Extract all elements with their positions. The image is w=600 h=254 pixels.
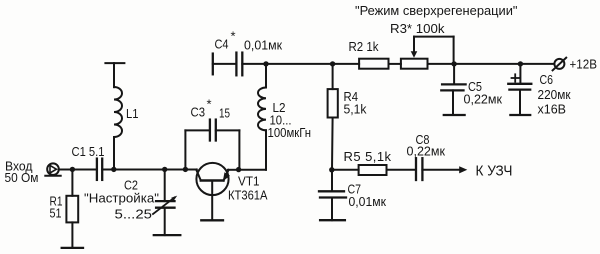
svg-text:100мкГн: 100мкГн bbox=[268, 125, 312, 140]
svg-text:R3* 100k: R3* 100k bbox=[390, 21, 445, 36]
svg-text:х16В: х16В bbox=[538, 102, 567, 117]
svg-text:"Режим сверхрегенерации": "Режим сверхрегенерации" bbox=[355, 3, 518, 18]
svg-text:VT1: VT1 bbox=[238, 174, 260, 189]
svg-text:5,1k: 5,1k bbox=[344, 101, 367, 116]
svg-text:C4: C4 bbox=[215, 37, 229, 52]
label C3 * 15 bbox=[191, 97, 231, 121]
capacitor C8 bbox=[416, 158, 422, 180]
label C4 * 0,01мк bbox=[215, 29, 283, 53]
svg-text:"Настройка": "Настройка" bbox=[84, 190, 159, 205]
inductor L1 bbox=[105, 63, 124, 169]
node input/R1 junction bbox=[70, 167, 75, 172]
wire R3 to +12V terminal bbox=[428, 63, 554, 65]
node R5/C7 junction bbox=[329, 167, 334, 172]
svg-text:*: * bbox=[207, 97, 212, 112]
svg-text:R2 1k: R2 1k bbox=[349, 39, 379, 54]
svg-text:C3: C3 bbox=[191, 105, 206, 120]
wire input to C1 bbox=[59, 169, 97, 171]
inductor L2 bbox=[258, 64, 266, 170]
wire top rail C4 node to R2 bbox=[266, 63, 359, 65]
wire R4 node to R5 bbox=[332, 169, 359, 171]
wire L1 node to C2 node bbox=[114, 169, 165, 171]
svg-text:КТ361А: КТ361А bbox=[228, 187, 268, 202]
node R4 tap on top rail bbox=[330, 61, 335, 66]
node C6 junction bbox=[518, 61, 523, 66]
svg-text:К УЗЧ: К УЗЧ bbox=[476, 162, 513, 179]
resistor R4 bbox=[328, 64, 338, 170]
label R4 5,1k bbox=[344, 89, 367, 117]
wire transistor to emitter node bbox=[228, 169, 239, 171]
wire C1 to L1 node bbox=[102, 169, 114, 171]
variable capacitor C2 bbox=[153, 170, 177, 236]
+12V terminal bbox=[553, 58, 567, 71]
svg-text:*: * bbox=[231, 29, 236, 44]
svg-text:R5 5,1k: R5 5,1k bbox=[344, 149, 392, 164]
svg-text:51: 51 bbox=[50, 205, 62, 220]
label C8 0,22мк bbox=[407, 132, 446, 159]
input connector XW1 bbox=[45, 163, 60, 175]
svg-text:C6: C6 bbox=[540, 72, 554, 87]
svg-text:0,01мк: 0,01мк bbox=[349, 194, 387, 209]
svg-text:0,22мк: 0,22мк bbox=[464, 91, 503, 106]
svg-text:+12В: +12В bbox=[570, 56, 598, 71]
wire emitter node to L2 bbox=[239, 169, 266, 171]
wire R5 to C8 bbox=[387, 169, 417, 171]
ground (C6) bbox=[510, 114, 530, 116]
node base/C3 junction bbox=[183, 167, 188, 172]
ground (VT1 base) bbox=[201, 219, 223, 221]
svg-text:15: 15 bbox=[219, 105, 230, 120]
label C5 0,22мк bbox=[464, 79, 503, 107]
label R1 51 bbox=[50, 194, 63, 221]
ground (C5) bbox=[444, 114, 465, 116]
wire C2 node to base node bbox=[165, 169, 186, 171]
label VT1 КТ361А bbox=[228, 174, 268, 203]
svg-text:0,22мк: 0,22мк bbox=[407, 144, 446, 159]
ground (C7) bbox=[320, 219, 345, 221]
svg-text:L1: L1 bbox=[126, 106, 139, 121]
ground (R1) bbox=[62, 247, 83, 249]
svg-text:C1 5.1: C1 5.1 bbox=[72, 144, 105, 159]
node C1/L1 junction bbox=[111, 167, 116, 172]
label Вход 50 Ом bbox=[5, 158, 39, 185]
wire C8 to output arrow bbox=[422, 166, 467, 173]
resistor R2 bbox=[359, 59, 388, 69]
label L2 10...100мкГн bbox=[268, 100, 312, 140]
capacitor C1 bbox=[97, 159, 102, 180]
label C2 "Настройка" 5...25 bbox=[84, 178, 159, 222]
svg-text:5...25: 5...25 bbox=[115, 207, 153, 222]
node L2/C4 junction bbox=[263, 61, 268, 66]
wire base node to transistor bbox=[185, 169, 196, 171]
capacitor C3 bbox=[185, 120, 239, 170]
resistor R5 bbox=[359, 165, 387, 175]
svg-text:50 Ом: 50 Ом bbox=[5, 170, 39, 185]
capacitor C5 bbox=[441, 64, 465, 115]
wire R2 to R3 bbox=[389, 63, 401, 65]
svg-text:0,01мк: 0,01мк bbox=[244, 38, 282, 53]
svg-text:220мк: 220мк bbox=[538, 87, 571, 102]
node C2 junction bbox=[162, 167, 167, 172]
capacitor C7 bbox=[319, 170, 346, 220]
transistor VT1 bbox=[196, 163, 230, 220]
capacitor C4 bbox=[213, 53, 266, 76]
resistor R1 bbox=[66, 170, 78, 248]
capacitor C6 electrolytic bbox=[508, 64, 531, 115]
ground (C2) bbox=[154, 234, 181, 236]
label C6 220мк х16В bbox=[538, 72, 571, 117]
label C7 0,01мк bbox=[348, 182, 387, 209]
trimmer resistor R3 bbox=[401, 37, 454, 69]
node emitter/C3/L2 junction bbox=[236, 167, 241, 172]
node C5 junction bbox=[451, 61, 456, 66]
